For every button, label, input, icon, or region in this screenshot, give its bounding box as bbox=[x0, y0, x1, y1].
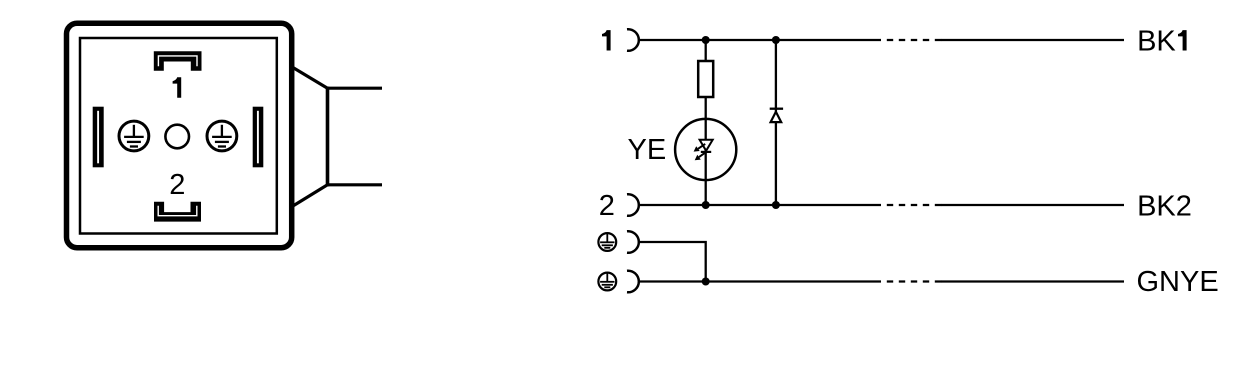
svg-text:2: 2 bbox=[599, 190, 615, 222]
svg-text:GNYE: GNYE bbox=[1137, 266, 1219, 298]
svg-text:BK2: BK2 bbox=[1137, 191, 1192, 223]
svg-text:2: 2 bbox=[169, 169, 185, 201]
svg-text:BK: BK bbox=[1137, 26, 1176, 58]
svg-text:YE: YE bbox=[628, 134, 667, 166]
